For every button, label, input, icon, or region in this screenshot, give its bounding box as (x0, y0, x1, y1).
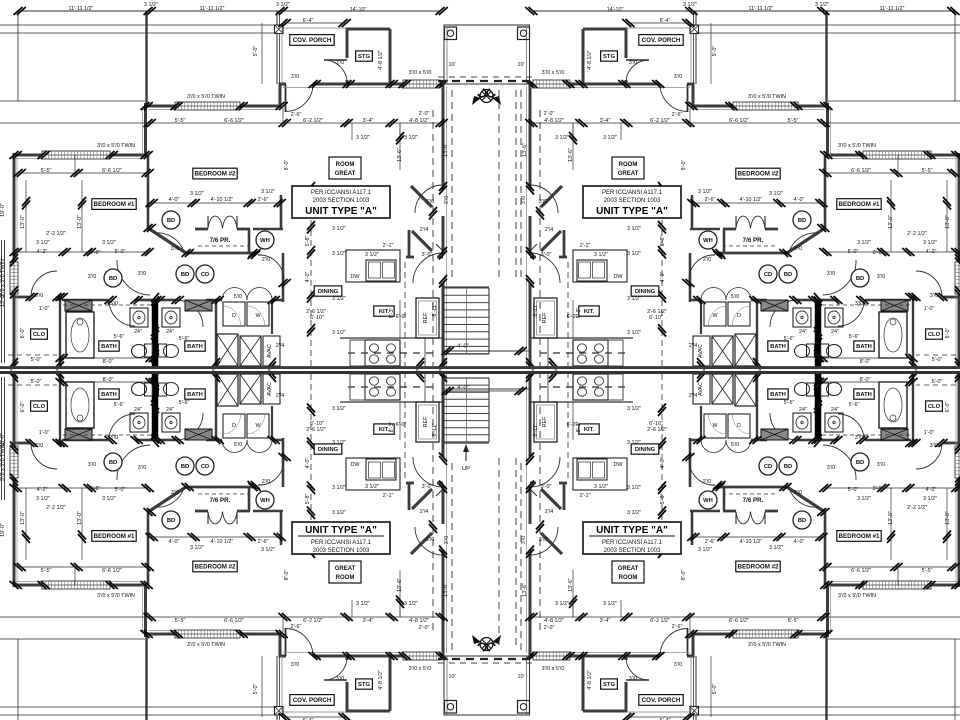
svg-text:5'/0: 5'/0 (731, 294, 740, 300)
svg-text:5'-0": 5'-0" (712, 684, 718, 695)
svg-text:3 1/2": 3 1/2" (594, 484, 608, 490)
svg-text:2'-2 1/2": 2'-2 1/2" (907, 505, 927, 511)
svg-text:UNIT TYPE "A": UNIT TYPE "A" (596, 525, 668, 536)
svg-text:4'-0": 4'-0" (457, 385, 469, 391)
svg-text:0'-8": 0'-8" (90, 250, 101, 256)
svg-text:13'-6": 13'-6" (443, 583, 449, 597)
svg-text:0'-8": 0'-8" (873, 250, 884, 256)
svg-text:3'/0 x 5'/0 TWIN: 3'/0 x 5'/0 TWIN (838, 593, 876, 599)
svg-text:BD: BD (181, 272, 189, 278)
svg-text:3 1/2": 3 1/2" (190, 191, 204, 197)
svg-text:ROOM: ROOM (619, 162, 638, 168)
svg-text:5'-5": 5'-5" (788, 118, 799, 124)
svg-text:5'-6": 5'-6" (784, 336, 795, 342)
svg-text:3'/0: 3'/0 (138, 465, 147, 471)
svg-text:5'-0": 5'-0" (115, 249, 126, 255)
svg-text:2003 SECTION 1003: 2003 SECTION 1003 (313, 548, 370, 554)
svg-text:4'-0": 4'-0" (457, 344, 469, 350)
svg-text:4'-0": 4'-0" (660, 272, 666, 283)
svg-text:3'/0: 3'/0 (171, 490, 180, 496)
svg-text:BEDROOM #1: BEDROOM #1 (839, 201, 880, 208)
svg-text:3 1/2": 3 1/2" (627, 510, 641, 516)
svg-text:19'-0": 19'-0" (0, 203, 6, 217)
svg-text:13'-6": 13'-6" (522, 583, 528, 597)
svg-text:5'-0": 5'-0" (932, 379, 943, 385)
svg-text:11'-11 1/2": 11'-11 1/2" (749, 6, 774, 12)
svg-text:3 1/2": 3 1/2" (36, 240, 50, 246)
svg-text:3 1/2": 3 1/2" (627, 485, 641, 491)
svg-text:WH: WH (703, 498, 713, 504)
svg-text:CLO: CLO (928, 404, 941, 410)
svg-text:COV. PORCH: COV. PORCH (293, 37, 332, 44)
svg-text:GREAT: GREAT (618, 171, 639, 177)
svg-text:DW: DW (614, 462, 624, 468)
svg-text:3 1/2": 3 1/2" (627, 440, 641, 446)
svg-text:8'-0": 8'-0" (681, 160, 687, 171)
svg-text:3'/0: 3'/0 (539, 537, 548, 543)
svg-text:6'-0": 6'-0" (396, 314, 407, 320)
svg-text:3 1/2": 3 1/2" (603, 135, 617, 141)
svg-text:DINING: DINING (635, 289, 656, 295)
svg-text:BD: BD (109, 460, 117, 466)
svg-text:5'-0": 5'-0" (848, 487, 859, 493)
svg-text:5'-6": 5'-6" (179, 336, 190, 342)
svg-text:3'/0: 3'/0 (444, 196, 450, 205)
svg-text:REF: REF (542, 312, 548, 323)
svg-text:3'/0 x 5'/0 TWIN: 3'/0 x 5'/0 TWIN (748, 642, 786, 648)
svg-text:5'-6": 5'-6" (784, 400, 795, 406)
svg-text:3'-0": 3'-0" (541, 252, 552, 258)
svg-text:3 1/2": 3 1/2" (332, 406, 346, 412)
svg-text:8'-3": 8'-3" (576, 422, 582, 433)
svg-text:3 1/2": 3 1/2" (365, 484, 379, 490)
svg-text:2'-0": 2'-0" (544, 111, 555, 117)
svg-text:8'-11": 8'-11" (432, 423, 438, 436)
svg-text:10': 10' (448, 62, 455, 68)
svg-text:4'-10 1/2": 4'-10 1/2" (211, 197, 234, 203)
svg-text:3'/0 x 5'/0: 3'/0 x 5'/0 (542, 70, 565, 76)
svg-text:3'/0 x 5'/0: 3'/0 x 5'/0 (409, 666, 432, 672)
svg-text:PER ICC/ANSI A117.1: PER ICC/ANSI A117.1 (311, 190, 372, 196)
svg-text:8'-11": 8'-11" (533, 303, 539, 316)
svg-text:BEDROOM #1: BEDROOM #1 (94, 533, 135, 540)
svg-text:3 1/2": 3 1/2" (404, 601, 418, 607)
svg-text:BEDROOM #2: BEDROOM #2 (195, 564, 236, 571)
svg-text:5'/0: 5'/0 (234, 442, 243, 448)
svg-text:CD: CD (201, 464, 209, 470)
svg-text:3 1/2": 3 1/2" (923, 240, 937, 246)
svg-text:2'/4: 2'/4 (545, 227, 554, 233)
svg-text:13'-6": 13'-6" (568, 578, 574, 592)
svg-text:CD: CD (764, 464, 772, 470)
svg-text:3'/0: 3'/0 (426, 537, 435, 543)
svg-text:4'-0": 4'-0" (660, 458, 666, 469)
svg-text:BD: BD (784, 272, 792, 278)
svg-text:8'-0": 8'-0" (860, 377, 871, 383)
svg-text:3'-4": 3'-4" (363, 118, 374, 124)
svg-text:STG: STG (358, 54, 370, 60)
svg-text:DINING: DINING (635, 447, 656, 453)
svg-text:2'/4: 2'/4 (420, 509, 429, 515)
svg-text:DW: DW (614, 274, 624, 280)
svg-text:BEDROOM #1: BEDROOM #1 (839, 533, 880, 540)
svg-text:3'/0 x 5'/0 TWIN: 3'/0 x 5'/0 TWIN (748, 94, 786, 100)
svg-text:4'-10 1/2": 4'-10 1/2" (740, 197, 763, 203)
svg-text:24": 24" (831, 407, 839, 413)
svg-text:3'/0: 3'/0 (827, 465, 836, 471)
svg-text:3 1/2": 3 1/2" (769, 545, 783, 551)
svg-text:8'-3": 8'-3" (389, 308, 395, 319)
svg-text:3'/0 x 5'/0 TWIN: 3'/0 x 5'/0 TWIN (97, 593, 135, 599)
svg-text:2'-1": 2'-1" (580, 493, 591, 499)
svg-text:2003 SECTION 1003: 2003 SECTION 1003 (313, 198, 370, 204)
svg-text:13'-6": 13'-6" (522, 143, 528, 157)
svg-text:3 1/2": 3 1/2" (857, 240, 871, 246)
svg-text:2'-6": 2'-6" (705, 539, 716, 545)
svg-text:BATH: BATH (856, 392, 872, 398)
svg-text:6'-4": 6'-4" (660, 18, 671, 24)
svg-text:4'-8 1/2": 4'-8 1/2" (378, 50, 384, 70)
svg-text:3'/0: 3'/0 (35, 443, 44, 449)
svg-text:3'/0 x 5'/0 TWIN: 3'/0 x 5'/0 TWIN (187, 94, 225, 100)
svg-text:13'-0": 13'-0" (77, 215, 83, 229)
svg-text:3'/0 x 5'/0: 3'/0 x 5'/0 (542, 666, 565, 672)
svg-text:2'-1": 2'-1" (383, 243, 394, 249)
svg-text:3 1/2": 3 1/2" (332, 226, 346, 232)
svg-text:3'/0: 3'/0 (291, 74, 300, 80)
svg-text:5'-6": 5'-6" (179, 400, 190, 406)
svg-text:3 1/2": 3 1/2" (815, 2, 829, 8)
svg-text:BATH: BATH (770, 392, 786, 398)
svg-text:3'/0: 3'/0 (877, 274, 886, 280)
svg-text:1'-0": 1'-0" (924, 430, 935, 436)
svg-text:5'-0": 5'-0" (932, 357, 943, 363)
svg-text:BATH: BATH (856, 344, 872, 350)
svg-text:3'/0: 3'/0 (877, 462, 886, 468)
svg-text:STG: STG (603, 682, 615, 688)
svg-text:3'/0: 3'/0 (336, 60, 345, 66)
svg-text:2'-6": 2'-6" (672, 624, 683, 630)
svg-text:0'-8": 0'-8" (873, 486, 884, 492)
svg-text:DINING: DINING (318, 289, 339, 295)
svg-text:3'-0": 3'-0" (422, 484, 433, 490)
svg-text:BATH: BATH (101, 392, 117, 398)
svg-text:2'-1": 2'-1" (580, 243, 591, 249)
svg-text:4'-10 1/2": 4'-10 1/2" (211, 539, 234, 545)
svg-text:7/6 PR.: 7/6 PR. (210, 237, 231, 244)
svg-text:13'-6": 13'-6" (568, 148, 574, 162)
svg-text:2'-2 1/2": 2'-2 1/2" (46, 505, 66, 511)
svg-text:19'-0": 19'-0" (0, 523, 6, 537)
svg-text:3 1/2": 3 1/2" (356, 135, 370, 141)
svg-text:UP: UP (462, 466, 470, 472)
svg-text:2'-6 1/2": 2'-6 1/2" (647, 427, 667, 433)
svg-text:4'-8 1/2": 4'-8 1/2" (544, 118, 564, 124)
svg-text:4'-8 1/2": 4'-8 1/2" (378, 670, 384, 690)
svg-text:3 1/2": 3 1/2" (356, 601, 370, 607)
svg-text:3'/0: 3'/0 (674, 74, 683, 80)
svg-text:4'-2": 4'-2" (37, 249, 48, 255)
svg-text:WH: WH (703, 238, 713, 244)
svg-text:1'-0": 1'-0" (39, 430, 50, 436)
svg-text:6'-6 1/2": 6'-6 1/2" (729, 618, 749, 624)
svg-text:GREAT: GREAT (335, 566, 356, 572)
svg-text:3'/0 x 5'/0 TWIN: 3'/0 x 5'/0 TWIN (0, 443, 6, 481)
svg-text:13'-0": 13'-0" (945, 511, 951, 525)
svg-text:2'/0: 2'/0 (703, 257, 712, 263)
svg-text:2'-0": 2'-0" (419, 625, 430, 631)
svg-text:BD: BD (784, 464, 792, 470)
svg-text:13'-0": 13'-0" (888, 215, 894, 229)
svg-text:WH: WH (260, 498, 270, 504)
svg-text:5'/0: 5'/0 (234, 294, 243, 300)
svg-text:3'/0: 3'/0 (674, 662, 683, 668)
svg-text:4'-0": 4'-0" (169, 539, 180, 545)
svg-text:2003 SECTION 1003: 2003 SECTION 1003 (604, 548, 661, 554)
svg-text:3'/0: 3'/0 (426, 199, 435, 205)
svg-text:3'/0: 3'/0 (629, 676, 638, 682)
svg-text:3 1/2": 3 1/2" (594, 252, 608, 258)
svg-text:STG: STG (358, 682, 370, 688)
svg-text:3'/0: 3'/0 (827, 271, 836, 277)
svg-text:3'/0: 3'/0 (88, 274, 97, 280)
svg-text:4'-0": 4'-0" (305, 272, 311, 283)
svg-text:3'/0 x 5'/0 TWIN: 3'/0 x 5'/0 TWIN (187, 642, 225, 648)
svg-text:REF: REF (542, 416, 548, 427)
svg-text:BEDROOM #2: BEDROOM #2 (195, 171, 236, 178)
svg-text:14'-10": 14'-10" (607, 7, 624, 13)
svg-text:2'-6 1/2": 2'-6 1/2" (306, 427, 326, 433)
svg-text:3 1/2": 3 1/2" (190, 545, 204, 551)
svg-text:4'-8 1/2": 4'-8 1/2" (587, 50, 593, 70)
svg-text:2'/4: 2'/4 (689, 393, 698, 399)
svg-text:D: D (232, 423, 236, 429)
svg-text:6'-2 1/2": 6'-2 1/2" (303, 118, 323, 124)
svg-text:CLO: CLO (928, 332, 941, 338)
svg-text:GREAT: GREAT (335, 171, 356, 177)
svg-text:3'/0 x 5'/0 TWIN: 3'/0 x 5'/0 TWIN (838, 143, 876, 149)
svg-text:3'/0: 3'/0 (35, 293, 44, 299)
svg-text:4'-2": 4'-2" (926, 249, 937, 255)
svg-text:4'-8 1/2": 4'-8 1/2" (409, 618, 429, 624)
svg-text:4'-8 1/2": 4'-8 1/2" (544, 618, 564, 624)
svg-text:3'/0: 3'/0 (539, 199, 548, 205)
svg-text:COV. PORCH: COV. PORCH (642, 37, 681, 44)
svg-text:BD: BD (798, 218, 806, 224)
svg-text:3'/0: 3'/0 (521, 536, 527, 545)
svg-text:6'-6 1/2": 6'-6 1/2" (851, 568, 871, 574)
svg-text:11'-11 1/2": 11'-11 1/2" (880, 6, 905, 12)
svg-text:6'-6 1/2": 6'-6 1/2" (102, 168, 122, 174)
svg-text:KIT.: KIT. (379, 427, 390, 433)
svg-text:8'-0": 8'-0" (284, 570, 290, 581)
svg-text:6'-6 1/2": 6'-6 1/2" (851, 168, 871, 174)
svg-text:6'-4": 6'-4" (303, 18, 314, 24)
svg-text:3'/0: 3'/0 (930, 293, 939, 299)
svg-text:24": 24" (134, 407, 142, 413)
svg-text:AVAC: AVAC (698, 344, 704, 358)
svg-text:3 1/2": 3 1/2" (555, 601, 569, 607)
svg-text:3'/0 x 5'/0 TWIN: 3'/0 x 5'/0 TWIN (97, 143, 135, 149)
svg-text:4'-2": 4'-2" (926, 487, 937, 493)
svg-text:PER ICC/ANSI A117.1: PER ICC/ANSI A117.1 (311, 540, 372, 546)
svg-text:5'-5": 5'-5" (41, 168, 52, 174)
svg-text:7/6 PR.: 7/6 PR. (743, 237, 764, 244)
svg-text:2'/4: 2'/4 (420, 227, 429, 233)
svg-text:AVAC: AVAC (698, 382, 704, 396)
svg-text:STG: STG (603, 54, 615, 60)
svg-text:BD: BD (167, 218, 175, 224)
svg-text:5'-0": 5'-0" (31, 357, 42, 363)
svg-text:2'-6": 2'-6" (258, 539, 269, 545)
svg-text:4'-0": 4'-0" (305, 458, 311, 469)
svg-text:3 1/2": 3 1/2" (627, 251, 641, 257)
svg-text:4'-2": 4'-2" (37, 487, 48, 493)
svg-text:CLO: CLO (33, 404, 46, 410)
svg-text:3'/0: 3'/0 (855, 301, 864, 307)
svg-text:11'-11 1/2": 11'-11 1/2" (69, 6, 94, 12)
svg-text:REF: REF (423, 416, 429, 427)
svg-text:CD: CD (201, 272, 209, 278)
svg-text:13'-0": 13'-0" (20, 215, 26, 229)
svg-text:5'-8": 5'-8" (660, 494, 666, 505)
svg-text:8'-0": 8'-0" (681, 570, 687, 581)
svg-text:BD: BD (167, 518, 175, 524)
svg-text:3 1/2": 3 1/2" (698, 189, 712, 195)
svg-text:2'/4: 2'/4 (276, 343, 285, 349)
svg-text:2'/0: 2'/0 (703, 479, 712, 485)
svg-text:4'-0": 4'-0" (169, 197, 180, 203)
svg-text:5'-6": 5'-6" (114, 402, 125, 408)
svg-text:2'-6": 2'-6" (291, 112, 302, 118)
svg-text:11'-11 1/2": 11'-11 1/2" (200, 6, 225, 12)
svg-text:4'-0": 4'-0" (794, 197, 805, 203)
svg-text:PER ICC/ANSI A117.1: PER ICC/ANSI A117.1 (602, 540, 663, 546)
svg-text:7/6 PR.: 7/6 PR. (210, 497, 231, 504)
svg-text:CD: CD (764, 272, 772, 278)
svg-text:6'-2 1/2": 6'-2 1/2" (650, 118, 670, 124)
svg-text:3'-4": 3'-4" (600, 618, 611, 624)
svg-text:3'/0: 3'/0 (444, 536, 450, 545)
svg-text:BATH: BATH (187, 344, 203, 350)
svg-text:3'-0": 3'-0" (541, 484, 552, 490)
svg-text:BD: BD (109, 276, 117, 282)
svg-text:ROOM: ROOM (336, 162, 355, 168)
svg-text:2'-6 1/2": 2'-6 1/2" (647, 309, 667, 315)
svg-text:6'-10": 6'-10" (649, 315, 663, 321)
svg-text:2'-2 1/2": 2'-2 1/2" (907, 231, 927, 237)
svg-text:D: D (232, 313, 236, 319)
svg-text:5'-0": 5'-0" (712, 46, 718, 57)
svg-text:4'-8 1/2": 4'-8 1/2" (587, 670, 593, 690)
svg-text:3 1/2": 3 1/2" (332, 440, 346, 446)
svg-text:3 1/2": 3 1/2" (857, 496, 871, 502)
svg-text:13'-6": 13'-6" (397, 148, 403, 162)
svg-text:BEDROOM #2: BEDROOM #2 (738, 171, 779, 178)
svg-text:COV. PORCH: COV. PORCH (293, 697, 332, 704)
svg-text:2'/0: 2'/0 (262, 479, 271, 485)
svg-text:6'-6 1/2": 6'-6 1/2" (224, 118, 244, 124)
svg-text:3 1/2": 3 1/2" (102, 496, 116, 502)
svg-text:5'-6": 5'-6" (849, 334, 860, 340)
svg-text:BD: BD (798, 518, 806, 524)
svg-text:0'-8": 0'-8" (90, 486, 101, 492)
svg-text:UNIT TYPE "A": UNIT TYPE "A" (596, 206, 668, 217)
svg-text:24": 24" (799, 407, 807, 413)
svg-text:3 1/2": 3 1/2" (627, 226, 641, 232)
svg-text:5'-5": 5'-5" (175, 618, 186, 624)
svg-text:3 1/2": 3 1/2" (923, 496, 937, 502)
svg-text:3 1/2": 3 1/2" (627, 296, 641, 302)
svg-text:6'-2 1/2": 6'-2 1/2" (650, 618, 670, 624)
svg-text:AVAC: AVAC (267, 344, 273, 358)
svg-text:3'/0: 3'/0 (855, 435, 864, 441)
svg-text:KIT.: KIT. (584, 309, 595, 315)
svg-text:3'-4": 3'-4" (363, 618, 374, 624)
svg-text:6'-0": 6'-0" (396, 422, 407, 428)
svg-text:3 1/2": 3 1/2" (332, 485, 346, 491)
svg-text:5'-6": 5'-6" (114, 334, 125, 340)
svg-text:3'/0 x 5'/0: 3'/0 x 5'/0 (409, 70, 432, 76)
svg-text:3 1/2": 3 1/2" (332, 510, 346, 516)
svg-text:BD: BD (856, 276, 864, 282)
svg-text:3'/0: 3'/0 (138, 271, 147, 277)
svg-text:BEDROOM #1: BEDROOM #1 (94, 201, 135, 208)
svg-text:WH: WH (260, 238, 270, 244)
svg-text:3 1/2": 3 1/2" (332, 251, 346, 257)
svg-text:ROOM: ROOM (619, 575, 638, 581)
svg-text:2'-0": 2'-0" (419, 111, 430, 117)
svg-text:3'-4": 3'-4" (600, 118, 611, 124)
svg-text:2'-2 1/2": 2'-2 1/2" (46, 231, 66, 237)
svg-text:1'-0": 1'-0" (39, 306, 50, 312)
svg-text:14'-10": 14'-10" (350, 7, 367, 13)
svg-text:6'-6 1/2": 6'-6 1/2" (102, 568, 122, 574)
svg-text:3'/0: 3'/0 (88, 462, 97, 468)
svg-text:8'-0": 8'-0" (103, 359, 114, 365)
svg-text:3 1/2": 3 1/2" (555, 135, 569, 141)
svg-text:ROOM: ROOM (336, 575, 355, 581)
svg-text:3 1/2": 3 1/2" (261, 189, 275, 195)
svg-text:8'-0": 8'-0" (860, 359, 871, 365)
svg-text:6'-2 1/2": 6'-2 1/2" (303, 618, 323, 624)
svg-text:8'-11": 8'-11" (432, 303, 438, 316)
svg-text:BEDROOM #2: BEDROOM #2 (738, 564, 779, 571)
svg-text:2'-6": 2'-6" (291, 624, 302, 630)
svg-text:3 1/2": 3 1/2" (261, 547, 275, 553)
svg-text:KIT.: KIT. (584, 427, 595, 433)
svg-text:2'-6": 2'-6" (705, 197, 716, 203)
svg-text:CLO: CLO (33, 332, 46, 338)
svg-text:2'-6": 2'-6" (258, 197, 269, 203)
svg-text:3 1/2": 3 1/2" (698, 547, 712, 553)
svg-text:5'-5": 5'-5" (922, 168, 933, 174)
svg-text:8'-0": 8'-0" (284, 160, 290, 171)
svg-text:3 1/2": 3 1/2" (603, 601, 617, 607)
svg-text:UNIT TYPE "A": UNIT TYPE "A" (305, 525, 377, 536)
svg-text:5'-5": 5'-5" (175, 118, 186, 124)
svg-text:24": 24" (799, 329, 807, 335)
svg-text:BATH: BATH (187, 392, 203, 398)
svg-text:GREAT: GREAT (618, 566, 639, 572)
svg-text:BD: BD (856, 460, 864, 466)
svg-text:24": 24" (166, 407, 174, 413)
svg-text:2'-6": 2'-6" (672, 112, 683, 118)
svg-text:24": 24" (831, 329, 839, 335)
svg-text:24": 24" (134, 329, 142, 335)
svg-text:13'-0": 13'-0" (945, 215, 951, 229)
svg-text:13'-0": 13'-0" (20, 511, 26, 525)
